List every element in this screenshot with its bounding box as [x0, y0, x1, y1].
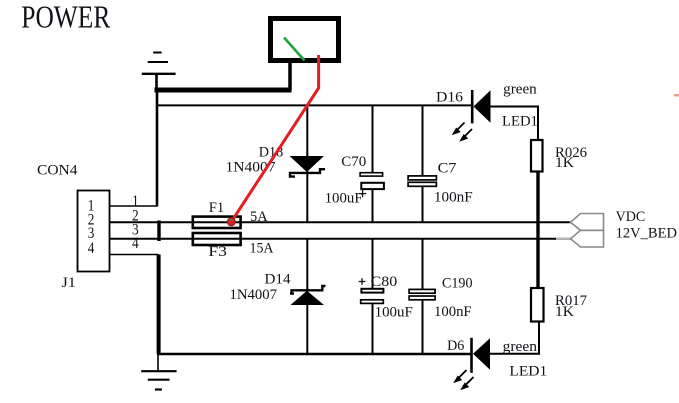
wire D18 column — [306, 105, 308, 221]
wire C70 column — [372, 105, 374, 172]
wire C80 column — [372, 239, 374, 289]
offpage connector VDC (lower flag) — [571, 230, 604, 247]
svg-text:1K: 1K — [555, 304, 574, 320]
wire C190 column — [422, 239, 424, 290]
artifact red dash top right — [674, 94, 679, 96]
resistor R026 — [531, 140, 543, 172]
wire pin 2 / bus 5A line — [110, 221, 571, 223]
fuse F1 box — [193, 217, 241, 228]
wire switch stub — [288, 62, 292, 90]
wire top bus — [156, 104, 472, 106]
svg-text:VDC: VDC — [616, 209, 646, 225]
capacitor C190 — [409, 289, 435, 293]
svg-text:J1: J1 — [62, 275, 76, 291]
wire pin 3 / bus 15A line — [110, 238, 571, 240]
svg-text:100nF: 100nF — [434, 304, 472, 320]
svg-text:100uF: 100uF — [375, 304, 413, 320]
svg-text:LED1: LED1 — [509, 364, 547, 380]
svg-text:C80: C80 — [371, 274, 398, 290]
diode D18 — [290, 156, 324, 172]
diode D14 — [290, 286, 326, 294]
wire joining pin2 and pin3 — [157, 221, 160, 242]
svg-text:C70: C70 — [341, 154, 366, 170]
capacitor C7 — [408, 176, 436, 180]
capacitor C80 — [361, 289, 383, 293]
wire from LED D16 to R026 — [491, 107, 539, 141]
switch S1 box — [271, 19, 339, 61]
polarity + (C70) — [359, 190, 366, 197]
wire left rail vertical — [156, 90, 159, 206]
svg-text:1K: 1K — [555, 155, 574, 171]
connector CON4 box — [78, 191, 110, 272]
LED D6 — [470, 338, 473, 373]
wire D14 column — [306, 239, 308, 290]
svg-text:D14: D14 — [265, 272, 291, 288]
switch lever (green) — [284, 38, 305, 61]
wire R017 to LED D6 — [490, 322, 539, 354]
svg-text:15A: 15A — [250, 241, 274, 257]
svg-text:C7: C7 — [438, 160, 457, 176]
light arrows (D16) — [453, 123, 472, 141]
svg-text:F1: F1 — [209, 200, 225, 216]
wire C7 column — [422, 105, 424, 176]
light arrows (D6) — [454, 370, 473, 389]
polarity + (C80) — [359, 278, 366, 285]
wire pin 4 — [110, 254, 159, 256]
offpage connector VDC (upper flag) — [571, 214, 604, 231]
svg-text:4: 4 — [132, 235, 139, 252]
svg-text:4: 4 — [88, 240, 95, 257]
wire (red) from switch to fuse F1 — [232, 55, 319, 222]
wire 15A fade segment near connector — [556, 238, 570, 240]
wire pin 1 — [110, 205, 159, 207]
ground (top) — [142, 53, 176, 91]
svg-text:F3: F3 — [208, 244, 227, 260]
wire R026 to bus rail — [536, 172, 539, 289]
wire bottom bus — [157, 353, 472, 356]
fuse F3 box — [193, 233, 241, 245]
svg-text:LED1: LED1 — [502, 114, 538, 130]
svg-text:12V_BED: 12V_BED — [616, 225, 678, 241]
resistor R017 — [531, 288, 544, 322]
junction dot (red) at F1 output — [227, 218, 235, 226]
svg-text:green: green — [503, 339, 538, 355]
svg-text:1N4007: 1N4007 — [230, 287, 278, 303]
wire pin4 rail down to ground — [157, 255, 161, 355]
svg-text:D16: D16 — [436, 90, 464, 106]
svg-text:C190: C190 — [442, 276, 473, 292]
LED D16 — [471, 90, 474, 123]
wire thick from top ground to switch — [155, 88, 292, 93]
svg-text:POWER: POWER — [21, 0, 111, 35]
svg-text:D6: D6 — [447, 338, 465, 354]
junction speck (green) — [230, 219, 232, 221]
capacitor C70 — [360, 173, 383, 176]
svg-text:100nF: 100nF — [434, 190, 473, 206]
svg-text:green: green — [503, 82, 537, 98]
svg-text:CON4: CON4 — [37, 162, 78, 178]
svg-text:5A: 5A — [250, 209, 268, 225]
ground (bottom) — [141, 354, 176, 390]
svg-text:100uF: 100uF — [325, 191, 363, 207]
